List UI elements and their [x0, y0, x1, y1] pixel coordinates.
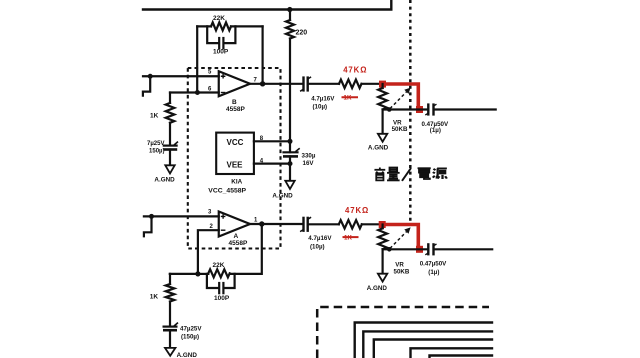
svg-text:150µ): 150µ) [149, 148, 164, 154]
wire 220 to VCC pin8 node [289, 39, 291, 153]
node output B pin7 [260, 81, 265, 86]
svg-text:(10µ): (10µ) [313, 103, 328, 110]
wire junction A to 1K [170, 273, 198, 275]
svg-text:A.GND: A.GND [177, 352, 198, 358]
resistor 47K (B) [339, 80, 380, 88]
wire input B shield hook [143, 77, 150, 96]
capacitor 100P (B feedback) [207, 26, 235, 55]
wire op-amp B output [250, 83, 302, 85]
nested wire loop 3 [374, 340, 492, 358]
pin 6 label [208, 87, 212, 93]
resistor 220 [286, 10, 307, 39]
nested wire loop 1 [355, 323, 492, 358]
capacitor 47u25V 150u (A) [163, 323, 202, 348]
svg-text:A.GND: A.GND [272, 193, 293, 200]
node pin4 [288, 161, 293, 166]
resistor 47K (A) [339, 220, 380, 228]
svg-text:1K: 1K [150, 293, 159, 300]
svg-text:330µ: 330µ [302, 153, 316, 160]
svg-text:4.7µ16V: 4.7µ16V [308, 235, 332, 242]
node red junction B wiper [416, 106, 423, 113]
pin 4 wire [254, 159, 290, 165]
svg-text:KIA: KIA [231, 179, 242, 186]
wire input A shield hook [144, 217, 152, 236]
label 47K ohm (red, B) [343, 65, 367, 74]
node output A pin1 [259, 221, 264, 226]
wiper arrow A [390, 227, 411, 248]
capacitor 330u16V [283, 148, 316, 167]
svg-text:VCC_4558P: VCC_4558P [208, 187, 246, 194]
node pin8 [288, 139, 293, 144]
dashed divider line [409, 0, 412, 221]
svg-text:0.47µ50V: 0.47µ50V [420, 261, 447, 268]
svg-text:A.GND: A.GND [154, 177, 175, 184]
wire pin2 A [198, 230, 219, 274]
node pin6 / feedback junction [195, 90, 200, 95]
svg-text:50KB: 50KB [392, 126, 408, 133]
wire feedback-left B (to pin6) [196, 26, 198, 92]
nested wire loop 5 [430, 356, 493, 358]
capacitor 7u25V 150u (B) [147, 141, 178, 166]
node input A [149, 214, 154, 219]
potentiometer VR 50KB (A) [378, 225, 410, 276]
svg-text:(10µ): (10µ) [310, 243, 325, 250]
ground A.GND (B pot) [368, 110, 389, 152]
svg-text:4558P: 4558P [229, 240, 248, 247]
dashed box (bottom right) [317, 307, 489, 358]
node rail / 220 junction [287, 7, 292, 12]
svg-text:4558P: 4558P [226, 106, 245, 113]
svg-text:47µ25V: 47µ25V [180, 325, 202, 332]
svg-text:7µ25V: 7µ25V [147, 141, 164, 147]
pin 7 label [254, 78, 258, 84]
ground A.GND (A input) [165, 348, 197, 358]
svg-text:47KΩ: 47KΩ [345, 206, 369, 215]
pin 5 label [208, 70, 212, 76]
svg-text:(1µ): (1µ) [428, 269, 439, 276]
pin 3 label [208, 210, 212, 216]
svg-text:47KΩ: 47KΩ [343, 65, 367, 74]
wire op-amp A output [250, 223, 302, 225]
capacitor 4.7u16V (A) [300, 217, 339, 250]
capacitor 4.7u16V (B) [300, 77, 339, 110]
node red junction A wiper [416, 246, 423, 253]
wiper arrow B [390, 88, 411, 109]
ground A.GND (A pot) [367, 249, 388, 292]
potentiometer VR 50KB (B) [378, 84, 408, 133]
svg-text:22K: 22K [213, 15, 225, 22]
IC power block VCC_4558P [208, 133, 254, 195]
svg-text:1K: 1K [150, 113, 159, 120]
wire pot B to cap [383, 108, 427, 110]
wire top power rail [143, 1, 391, 10]
node wiper A [387, 247, 392, 252]
pin 8 wire [254, 136, 290, 142]
ground A.GND (B input) [154, 165, 175, 183]
svg-text:B: B [232, 99, 237, 106]
svg-text:7: 7 [254, 78, 258, 84]
svg-text:VCC: VCC [227, 138, 244, 147]
node red junction A top [379, 221, 386, 228]
svg-text:A.GND: A.GND [367, 285, 388, 292]
label 47K ohm (red, A) [345, 206, 369, 215]
pin 2 label [210, 224, 214, 230]
wire red mod jumper (A) [382, 225, 418, 249]
node input B [148, 74, 153, 79]
svg-text:VEE: VEE [227, 161, 244, 170]
wire pin6 B [170, 91, 219, 93]
ground A.GND (VCC block) [272, 156, 294, 199]
svg-text:50KB: 50KB [394, 269, 410, 276]
resistor 22K (B feedback) [197, 15, 262, 30]
capacitor 100P (A feedback) [207, 274, 235, 302]
node red junction B top [379, 81, 386, 88]
wire input A (pin3) [144, 215, 219, 217]
nested wire loop 2 [363, 331, 492, 358]
op-amp U1A 4558P [219, 212, 250, 247]
wire input B (pin5) [143, 75, 219, 77]
label crossed-out 1K (red, B) [342, 95, 359, 102]
op-amp U1B 4558P [219, 71, 250, 113]
svg-text:VR: VR [395, 262, 404, 269]
svg-text:22K: 22K [213, 262, 225, 269]
wire pot A to cap [383, 248, 427, 250]
pin 1 label [254, 218, 258, 224]
svg-text:100P: 100P [214, 295, 230, 302]
svg-text:A.GND: A.GND [368, 145, 389, 152]
resistor 22K (A feedback) [198, 262, 230, 277]
svg-text:220: 220 [296, 30, 308, 37]
svg-text:4.7µ16V: 4.7µ16V [311, 95, 335, 102]
nested wire loop 4 [411, 348, 493, 358]
svg-text:5: 5 [208, 70, 212, 76]
dashed box IC 4558P outline [188, 68, 281, 249]
svg-text:100P: 100P [213, 49, 229, 56]
svg-text:3: 3 [208, 210, 212, 216]
resistor 1K (B) [150, 93, 174, 146]
node feedback junction A [195, 271, 200, 276]
wire red mod jumper (B) [383, 84, 419, 109]
capacitor 0.47u50V (A) [420, 244, 493, 276]
svg-text:(150µ): (150µ) [181, 333, 199, 340]
svg-text:1: 1 [254, 218, 258, 224]
wire feedback-right A [230, 224, 262, 274]
node wiper B [387, 107, 392, 112]
label crossed-out 1K (red, A) [343, 234, 359, 241]
wire feedback-right B (to output) [262, 26, 264, 83]
svg-text:16V: 16V [303, 160, 315, 167]
svg-text:(1µ): (1µ) [430, 127, 441, 134]
label kanji volume/power (onryou/dengen) [374, 168, 446, 181]
resistor 1K (A) [150, 274, 175, 327]
capacitor 0.47u50V (B) [422, 104, 496, 134]
